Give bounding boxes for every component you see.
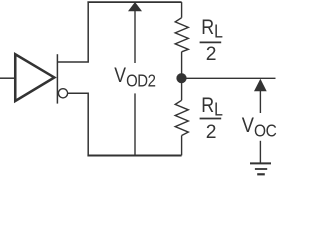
wire: inverting output branch — [68, 93, 89, 154]
wire: noninverting output branch — [57, 3, 88, 62]
svg-text:2: 2 — [206, 44, 217, 65]
resistor R1 (RL/2 upper) — [175, 18, 188, 52]
wire: driver input — [0, 77, 15, 79]
wire: VOD2 arrow stem lower — [134, 93, 136, 155]
wire: VOD2 arrow stem upper — [134, 11, 136, 64]
label RL/2 lower: RL — [201, 94, 223, 120]
label RL/2 upper: RL — [201, 16, 223, 42]
resistor R2 (RL/2 lower) — [175, 100, 188, 135]
junction node: center tap — [176, 73, 186, 83]
wire: R1 to center node — [181, 52, 183, 79]
VOD2 arrowhead — [128, 2, 142, 11]
label VOC — [242, 114, 277, 141]
svg-text:VOD2: VOD2 — [114, 64, 156, 91]
inverting output bubble — [58, 89, 67, 98]
op-amp driver U1 (triangle buffer) — [15, 54, 54, 101]
wire: top rail — [87, 1, 181, 3]
label RL/2 upper: fraction bar — [200, 41, 222, 43]
wire: top rail to resistor R1 — [181, 2, 183, 18]
label VOD2 — [114, 64, 156, 91]
wire: center node to R2 — [181, 78, 183, 100]
wire: center node to VOC tap — [182, 77, 276, 79]
svg-text:2: 2 — [206, 122, 217, 143]
svg-text:RL: RL — [201, 94, 223, 120]
svg-text:RL: RL — [201, 16, 223, 42]
VOC arrowhead — [254, 79, 267, 91]
wire: output pin bar — [56, 54, 58, 103]
wire: VOC arrow stem lower — [259, 141, 261, 163]
wire: bottom rail — [87, 155, 181, 157]
ground GND — [250, 163, 271, 174]
wire: VOC arrow stem upper — [259, 90, 261, 113]
label RL/2 lower: fraction bar — [200, 118, 222, 120]
svg-text:VOC: VOC — [242, 114, 277, 141]
wire: R2 to bottom rail — [181, 136, 183, 156]
